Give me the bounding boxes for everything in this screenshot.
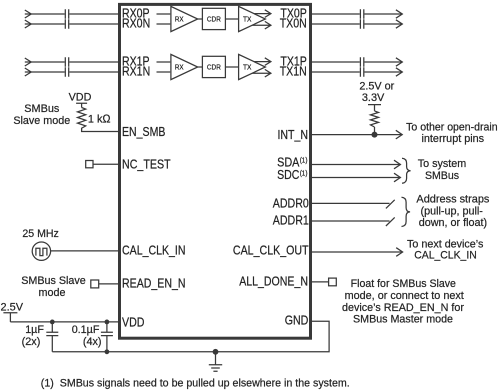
svg-text:ALL_DONE_N: ALL_DONE_N — [239, 275, 308, 289]
svg-text:CAL_CLK_OUT: CAL_CLK_OUT — [233, 243, 309, 257]
wire CAL_CLK_OUT — [310, 251, 402, 253]
oscillator 25 MHz — [32, 242, 50, 260]
wire RX1P input — [25, 61, 65, 63]
arrowhead TX1N out — [396, 68, 402, 76]
svg-text:0.1µF: 0.1µF — [72, 324, 100, 336]
svg-text:(pull-up, pull-: (pull-up, pull- — [421, 205, 484, 217]
svg-text:SDC: SDC — [277, 168, 299, 182]
svg-text:(2x): (2x) — [22, 336, 41, 348]
svg-text:Slave mode: Slave mode — [13, 115, 70, 127]
svg-text:TX: TX — [243, 15, 251, 24]
op-amp TX driver ch1 — [239, 54, 266, 79]
svg-text:SMBus: SMBus — [425, 170, 459, 182]
arrowhead RX1N input — [25, 68, 31, 76]
resistor pull-up INT_N — [371, 111, 379, 127]
op-amp RX buffer ch1 — [171, 54, 198, 79]
block CDR ch1 — [202, 56, 225, 77]
svg-text:(4x): (4x) — [83, 336, 102, 348]
svg-text:VDD: VDD — [122, 315, 145, 329]
capacitor C1 1uF — [46, 322, 58, 352]
svg-text:RX0N: RX0N — [122, 17, 150, 31]
svg-text:2.5V: 2.5V — [1, 302, 24, 314]
arrowhead RX0N input — [25, 20, 31, 28]
svg-text:1µF: 1µF — [25, 324, 44, 336]
svg-text:To other open-drain: To other open-drain — [406, 122, 498, 134]
resistor R 1 kOhm — [78, 108, 86, 130]
svg-text:Float for SMBus Slave: Float for SMBus Slave — [351, 278, 456, 290]
wire READ_EN_N to IC — [99, 283, 120, 285]
wire oscillator to CAL_CLK_IN — [51, 250, 120, 252]
wire TX1N from IC — [310, 71, 359, 73]
svg-text:VDD: VDD — [69, 92, 92, 104]
svg-text:ADDR1: ADDR1 — [273, 214, 309, 228]
wire TX0N from IC — [310, 23, 359, 25]
svg-text:SMBus Slave: SMBus Slave — [21, 275, 86, 287]
junction dot C1 top — [50, 320, 55, 325]
svg-text:NC_TEST: NC_TEST — [122, 158, 171, 172]
arrowhead SDA — [394, 160, 400, 169]
wire ground rail — [52, 321, 329, 352]
wire CDR to TX ch0 — [225, 18, 238, 20]
wire SDA — [310, 164, 400, 166]
svg-text:CDR: CDR — [207, 63, 221, 72]
power VDD symbol — [76, 103, 87, 107]
capacitor TX1N AC-coupling — [360, 67, 363, 77]
wire TX1P out — [364, 61, 402, 63]
arrowhead TX1P out — [396, 58, 402, 66]
wire CDR to TX ch1 — [225, 66, 238, 68]
wire NC_TEST to IC — [93, 163, 120, 165]
junction dot INT_N — [372, 132, 378, 138]
svg-text:GND: GND — [285, 313, 309, 327]
arrowhead TX0P out — [396, 10, 402, 18]
wire resistor to INT_N net — [374, 127, 376, 135]
power 2.5V symbol — [3, 313, 17, 322]
svg-text:mode, or connect to next: mode, or connect to next — [345, 290, 465, 302]
wire RX0P input — [25, 13, 65, 15]
wire RX0P to IC — [69, 13, 119, 15]
strap slash ADDR0 — [386, 200, 395, 209]
svg-text:SMBus: SMBus — [24, 103, 59, 115]
svg-text:CDR: CDR — [207, 15, 221, 24]
svg-text:interrupt pins: interrupt pins — [422, 133, 485, 145]
svg-text:RX: RX — [175, 63, 184, 72]
svg-text:TX1N: TX1N — [280, 65, 307, 79]
svg-text:READ_EN_N: READ_EN_N — [122, 277, 186, 291]
capacitor RX0P AC-coupling — [65, 9, 68, 19]
arrowhead INT_N — [396, 130, 402, 139]
wire RX0N input — [25, 23, 65, 25]
svg-text:2.5V or: 2.5V or — [359, 81, 394, 93]
wire RX1N to IC — [69, 71, 119, 73]
ground symbol — [209, 352, 222, 371]
wire INT_N — [310, 134, 402, 136]
wire TX1N output arrow — [252, 69, 271, 77]
wire ADDR1 — [310, 220, 389, 222]
capacitor TX0N AC-coupling — [360, 19, 363, 29]
svg-text:RX: RX — [175, 15, 184, 24]
brace SMBus group — [402, 158, 411, 183]
arrowhead CAL_CLK_OUT — [396, 248, 402, 257]
terminal square READ_EN_N — [91, 280, 99, 288]
wire TX1P from IC — [310, 61, 359, 63]
junction dot C2 top — [105, 320, 110, 325]
power 2.5/3.3V symbol — [368, 105, 381, 111]
IC body U1 — [120, 4, 311, 338]
wire TX0N output arrow — [252, 21, 271, 29]
wire RX1P to amp — [157, 61, 171, 63]
block CDR ch0 — [202, 8, 225, 29]
capacitor TX0P AC-coupling — [360, 9, 363, 19]
svg-text:EN_SMB: EN_SMB — [122, 125, 165, 139]
svg-text:mode: mode — [39, 287, 66, 299]
svg-text:down, or float): down, or float) — [419, 217, 488, 229]
arrowhead RX0P input — [25, 10, 31, 18]
svg-text:TX0N: TX0N — [280, 17, 307, 31]
wire TX0P out — [364, 13, 402, 15]
wire TX0P output arrow — [254, 10, 271, 18]
svg-text:25 MHz: 25 MHz — [22, 228, 59, 240]
svg-text:RX1N: RX1N — [122, 65, 150, 79]
wire RX1N to amp — [157, 71, 171, 73]
svg-text:3.3V: 3.3V — [362, 92, 385, 104]
wire RX0P to amp — [157, 13, 171, 15]
capacitor TX1P AC-coupling — [360, 57, 363, 67]
terminal square ALL_DONE_N — [329, 278, 337, 286]
svg-text:(1) SMBus signals need to be: (1) SMBus signals need to be pulled up e… — [41, 377, 350, 389]
svg-text:ADDR0: ADDR0 — [273, 196, 309, 210]
svg-text:TX: TX — [243, 63, 251, 72]
op-amp TX driver ch0 — [239, 6, 266, 31]
wire RX0N to amp — [157, 23, 171, 25]
svg-text:device’s READ_EN_N for: device’s READ_EN_N for — [342, 302, 464, 314]
arrowhead SDC — [394, 173, 400, 182]
brace address straps — [402, 197, 411, 226]
wire SDC — [310, 177, 400, 179]
wire ALL_DONE_N — [310, 281, 328, 283]
capacitor RX1N AC-coupling — [65, 67, 68, 77]
wire amp to CDR ch0 — [198, 18, 203, 20]
junction dot C2 bottom — [105, 349, 110, 354]
svg-text:(1): (1) — [300, 156, 308, 165]
wire TX1P output arrow — [254, 58, 271, 66]
wire TX0N out — [364, 23, 402, 25]
wire RX1N input — [25, 71, 65, 73]
svg-text:To system: To system — [418, 158, 466, 170]
terminal square NC_TEST — [86, 161, 93, 168]
strap slash ADDR1 — [386, 217, 395, 226]
wire amp to CDR ch1 — [198, 66, 203, 68]
wire TX1N out — [364, 71, 402, 73]
svg-text:Address straps: Address straps — [416, 194, 489, 206]
capacitor RX0N AC-coupling — [65, 19, 68, 29]
junction dot ground — [213, 349, 219, 355]
wire TX0P from IC — [310, 13, 359, 15]
capacitor RX1P AC-coupling — [65, 57, 68, 67]
wire ADDR0 — [310, 202, 389, 204]
svg-text:INT_N: INT_N — [278, 128, 309, 142]
svg-text:SMBus Master mode: SMBus Master mode — [353, 314, 453, 326]
svg-text:CAL_CLK_IN: CAL_CLK_IN — [414, 250, 477, 262]
svg-text:1 kΩ: 1 kΩ — [88, 113, 111, 125]
arrowhead TX0N out — [396, 20, 402, 28]
wire RX1P to IC — [69, 61, 119, 63]
wire 2.5V to VDD pin — [10, 321, 119, 323]
wire resistor to EN_SMB — [82, 129, 120, 131]
op-amp RX buffer ch0 — [171, 6, 198, 31]
svg-text:(1): (1) — [300, 168, 308, 177]
arrowhead RX1P input — [25, 58, 31, 66]
capacitor C2 0.1uF — [101, 322, 113, 352]
svg-text:CAL_CLK_IN: CAL_CLK_IN — [122, 244, 186, 258]
wire RX0N to IC — [69, 23, 119, 25]
